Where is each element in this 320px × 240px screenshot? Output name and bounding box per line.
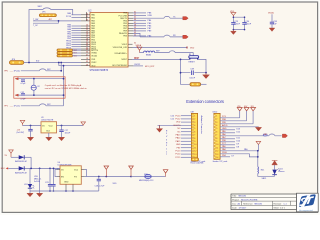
svg-text:AVDD: AVDD <box>222 124 228 127</box>
svg-text:8: 8 <box>194 138 195 140</box>
svg-text:VDD2: VDD2 <box>122 44 128 46</box>
svg-text:Date:: Date: <box>232 207 237 210</box>
wire U3 input <box>23 125 42 127</box>
svg-text:4: 4 <box>194 125 195 127</box>
svg-text:MB1136: MB1136 <box>239 196 247 198</box>
power flag +5V (U3 in) <box>17 120 25 133</box>
CN7 left wires <box>158 116 192 158</box>
power flag (LD4) <box>272 161 278 165</box>
svg-text:7: 7 <box>194 135 195 137</box>
wire ground rail <box>30 190 99 192</box>
node U5V <box>30 157 32 168</box>
port arrow SWO <box>282 134 287 137</box>
svg-text:VDDA: VDDA <box>268 12 274 15</box>
svg-text:3: 3 <box>216 122 217 124</box>
svg-text:Extension connectors: Extension connectors <box>186 99 224 104</box>
svg-text:VSS2: VSS2 <box>91 62 97 64</box>
power flag 5V (D1) <box>5 150 14 157</box>
wire IDD row <box>24 63 81 66</box>
svg-text:PC12: PC12 <box>175 119 181 121</box>
svg-text:Vin: Vin <box>42 126 45 128</box>
svg-text:VDD: VDD <box>230 11 235 13</box>
svg-text:OSC32: OSC32 <box>134 64 140 66</box>
power flag VDD (U4 out) <box>104 166 117 185</box>
wire top-left net <box>29 8 73 63</box>
capacitor C26 <box>27 126 33 141</box>
svg-text:Reserved(TM): Reserved(TM) <box>191 163 204 165</box>
svg-text:VDD: VDD <box>176 122 181 124</box>
svg-text:PC13: PC13 <box>175 151 181 153</box>
svg-text:PC14: PC14 <box>175 154 181 156</box>
svg-text:11: 11 <box>216 147 218 149</box>
svg-text:T_SC: T_SC <box>33 25 38 27</box>
svg-text:15: 15 <box>86 16 88 18</box>
svg-text:Vout: Vout <box>49 125 53 128</box>
wire U3 output <box>57 125 84 127</box>
wire OSC_OUT <box>18 94 63 96</box>
svg-text:14: 14 <box>216 157 218 159</box>
oscillator X2 <box>31 79 40 95</box>
svg-text:8: 8 <box>216 138 217 140</box>
svg-text:SB?: SB? <box>47 104 51 106</box>
vertical osc wires <box>61 63 63 106</box>
svg-text:13: 13 <box>194 154 196 156</box>
svg-text:STM32F072RBT6: STM32F072RBT6 <box>90 70 109 72</box>
capacitor C27 <box>58 126 71 141</box>
svg-text:Project:: Project: <box>232 198 239 201</box>
svg-text:9: 9 <box>216 141 217 143</box>
svg-text:1: 1 <box>216 115 217 117</box>
U2 right pin names <box>112 13 128 67</box>
capacitors C23 C24 <box>45 168 52 191</box>
svg-text:11: 11 <box>194 147 196 149</box>
svg-text:NRST: NRST <box>122 59 128 61</box>
svg-text:BOOT0: BOOT0 <box>91 50 99 52</box>
svg-text:1/7/2017: 1/7/2017 <box>239 208 248 210</box>
jumper JP1 <box>39 12 56 17</box>
svg-text:Green: Green <box>279 171 285 173</box>
power flag (LED net) <box>256 141 261 150</box>
wire U4 input jog <box>57 168 60 169</box>
push button B1 <box>189 56 199 59</box>
svg-text:(PC14): (PC14) <box>14 71 20 73</box>
ferrite bead FB1 <box>131 174 166 182</box>
svg-text:VSS: VSS <box>91 59 96 61</box>
jumper JP2 (left edge) <box>9 59 23 64</box>
svg-text:2: 2 <box>216 119 217 121</box>
svg-text:MCO_BYP: MCO_BYP <box>145 66 155 68</box>
solder bridge SB18 <box>191 158 204 165</box>
wire VCP_RX <box>133 33 183 37</box>
svg-text:VDDA/VREF+: VDDA/VREF+ <box>114 52 127 55</box>
svg-text:X2: X2 <box>37 86 39 88</box>
svg-text:USB: USB <box>148 15 153 17</box>
svg-text:VDD: VDD <box>91 65 96 67</box>
CN7 left labels <box>174 115 182 159</box>
U2 left red pin numbers <box>86 13 88 66</box>
svg-text:SB17: SB17 <box>38 6 43 8</box>
svg-text:4.7pF: 4.7pF <box>20 98 26 100</box>
wire PF1 row <box>21 104 64 106</box>
port arrow VCP_RX <box>183 35 188 38</box>
svg-text:100nF: 100nF <box>189 77 195 79</box>
svg-text:63: 63 <box>86 61 88 63</box>
svg-text:T_SW: T_SW <box>33 19 38 21</box>
svg-text:Crystal oscil. not fitted on 4: Crystal oscil. not fitted on 49.7MHz pkg… <box>45 84 82 87</box>
ground (CN7) <box>156 125 162 132</box>
CN10 right wires <box>220 118 282 167</box>
svg-text:5: 5 <box>216 128 217 130</box>
svg-text:MB1136: MB1136 <box>255 204 263 206</box>
right net labels of U2 <box>148 12 153 37</box>
svg-text:SB?: SB? <box>47 69 51 71</box>
wire bead to NRST loop <box>140 51 194 56</box>
power flag (U3 out) <box>81 122 86 126</box>
svg-text:GND: GND <box>176 144 181 146</box>
svg-text:BOOT0/PB8-BO: BOOT0/PB8-BO <box>112 65 127 67</box>
svg-text:B1: B1 <box>189 54 191 56</box>
svg-text:100nF: 100nF <box>245 24 251 26</box>
svg-text:Vin: Vin <box>61 169 64 171</box>
svg-text:Arduino Connector: Arduino Connector <box>200 116 203 135</box>
svg-text:1: 1 <box>194 115 195 117</box>
regulator U3 <box>41 117 57 133</box>
svg-text:12: 12 <box>216 151 218 153</box>
ST logo <box>299 194 316 211</box>
svg-text:PC1/USB: PC1/USB <box>118 15 127 17</box>
wire NRST <box>132 59 206 84</box>
wire VDD row <box>133 47 188 49</box>
svg-text:16: 16 <box>86 19 88 21</box>
svg-text:Header 7X2_male: Header 7X2_male <box>213 161 227 163</box>
svg-text:use int. RC or ext. STLINK MCO: use int. RC or ext. STLINK MCO 8MHz cloc… <box>45 87 87 90</box>
vertical net column <box>166 131 168 157</box>
capacitor C38 <box>189 69 195 80</box>
svg-text:12: 12 <box>194 151 196 153</box>
LED LD3 <box>24 168 34 196</box>
svg-text:35: 35 <box>86 49 88 51</box>
U2 left pin names <box>91 14 99 68</box>
capacitor C29 C30 pair <box>230 11 252 35</box>
capacitor C32 <box>20 92 26 101</box>
box X2 crystal area <box>14 77 65 98</box>
CN10 right labels <box>222 116 228 157</box>
svg-text:(PC15): (PC15) <box>14 106 20 108</box>
ground (button) <box>203 73 210 79</box>
svg-text:4R7: 4R7 <box>49 19 52 21</box>
power flags above CN10 <box>237 106 255 124</box>
svg-text:10: 10 <box>216 144 218 146</box>
wire PA2 row <box>33 21 81 23</box>
svg-text:9: 9 <box>194 141 195 143</box>
svg-text:VSSA: VSSA <box>91 52 97 55</box>
svg-text:(5x3.3V): (5x3.3V) <box>17 132 25 134</box>
capacitor C31 <box>20 80 26 85</box>
svg-text:Reference:: Reference: <box>243 204 253 206</box>
svg-text:100nF: 100nF <box>234 24 240 26</box>
svg-text:VDD: VDD <box>113 183 118 185</box>
svg-text:2: 2 <box>194 119 195 121</box>
svg-text:Revision:: Revision: <box>274 204 283 206</box>
svg-text:PF0: PF0 <box>4 71 7 73</box>
solder bridges SB1-SB3 stack <box>57 49 81 58</box>
U2 left blue net labels <box>66 12 72 49</box>
capacitor C28 <box>95 177 106 192</box>
port arrow OSC_OUT <box>15 94 18 96</box>
svg-text:PC15: PC15 <box>175 157 181 159</box>
ground (CN10) <box>255 127 261 131</box>
U2 right red pin numbers <box>134 11 140 60</box>
svg-text:MB1136(06)-C13: MB1136(06)-C13 <box>139 180 153 182</box>
svg-text:Title:: Title: <box>232 195 237 198</box>
diode D1 <box>11 155 31 163</box>
svg-text:3: 3 <box>194 122 195 124</box>
capacitor C33 <box>268 12 278 32</box>
port arrow OSC_IN <box>15 78 18 80</box>
svg-text:VDD: VDD <box>190 47 195 49</box>
svg-text:BEAD: BEAD <box>146 54 152 57</box>
LED LD4 <box>272 165 284 176</box>
svg-text:VDDA: VDDA <box>136 44 142 47</box>
svg-text:36: 36 <box>86 52 88 54</box>
connector CN10 <box>212 112 227 163</box>
svg-text:10: 10 <box>194 144 196 146</box>
svg-text:life.augmented: life.augmented <box>299 209 313 212</box>
svg-text:Doc:: Doc: <box>232 204 237 206</box>
svg-text:3v3/4k: 3v3/4k <box>34 181 40 183</box>
wire resistor to LED <box>258 174 275 177</box>
svg-text:18: 18 <box>86 58 88 60</box>
svg-text:C28_4.7uF: C28_4.7uF <box>95 186 106 188</box>
U2 left wires <box>72 15 82 49</box>
svg-text:37: 37 <box>86 55 88 57</box>
svg-text:GND: GND <box>222 128 227 130</box>
svg-text:R41: R41 <box>261 170 264 172</box>
svg-text:E5V: E5V <box>1 168 5 170</box>
svg-text:6: 6 <box>194 131 195 133</box>
svg-text:VDDIO/VB_LVR: VDDIO/VB_LVR <box>113 47 128 49</box>
svg-text:RESET: RESET <box>189 62 196 64</box>
ground (U3) <box>46 133 52 141</box>
connector CN7 <box>190 112 205 163</box>
capacitor C24 <box>51 168 55 192</box>
regulator U4 <box>57 162 85 191</box>
diode D2 <box>8 166 60 174</box>
svg-text:Gnd: Gnd <box>46 131 50 133</box>
wire VBAT row <box>133 65 143 67</box>
ground (U5V cap) <box>37 168 43 196</box>
solder bridge SB12 <box>190 83 207 86</box>
wire VCP_TX <box>133 16 183 18</box>
svg-text:BOOT0: BOOT0 <box>174 125 182 127</box>
svg-text:NRST: NRST <box>134 58 140 60</box>
U2 left pin stubs <box>81 12 90 66</box>
svg-text:PG: PG <box>74 177 77 179</box>
svg-text:5: 5 <box>194 128 195 130</box>
svg-text:13: 13 <box>216 154 218 156</box>
svg-text:PC10: PC10 <box>175 115 181 117</box>
wire U4 output <box>85 176 131 178</box>
port arrow VCP_TX <box>183 17 188 20</box>
svg-text:4.7pF: 4.7pF <box>20 83 26 85</box>
svg-text:4: 4 <box>216 125 217 127</box>
svg-text:6: 6 <box>216 131 217 133</box>
svg-text:14: 14 <box>86 13 88 15</box>
svg-text:BAT60JFILM: BAT60JFILM <box>15 172 27 175</box>
svg-text:PF1: PF1 <box>4 106 7 108</box>
svg-text:48: 48 <box>86 64 88 66</box>
power flag VDD (right) <box>163 170 168 177</box>
resistor R41 <box>258 167 264 174</box>
svg-text:GND: GND <box>64 181 69 183</box>
svg-text:NUCLEO-F072RB: NUCLEO-F072RB <box>241 199 258 201</box>
svg-text:VDDA: VDDA <box>91 55 97 58</box>
svg-text:7: 7 <box>216 135 217 137</box>
svg-text:100nF: 100nF <box>65 132 71 134</box>
svg-text:BAT60JFILM: BAT60JFILM <box>15 160 27 163</box>
svg-text:Sheet: 1 of 1: Sheet: 1 of 1 <box>274 207 286 210</box>
U2 right pin stubs <box>128 13 133 66</box>
svg-text:Vout: Vout <box>74 168 78 171</box>
wire OSC_IN <box>18 78 63 80</box>
wire PF0 row <box>21 69 61 71</box>
MCU U2 <box>89 11 129 72</box>
power flag VDDA <box>136 44 142 53</box>
title block <box>231 193 318 212</box>
power flag (bead right) <box>129 166 134 177</box>
svg-text:PC14: PC14 <box>66 16 72 18</box>
ferrite bead FB2 <box>144 51 155 53</box>
